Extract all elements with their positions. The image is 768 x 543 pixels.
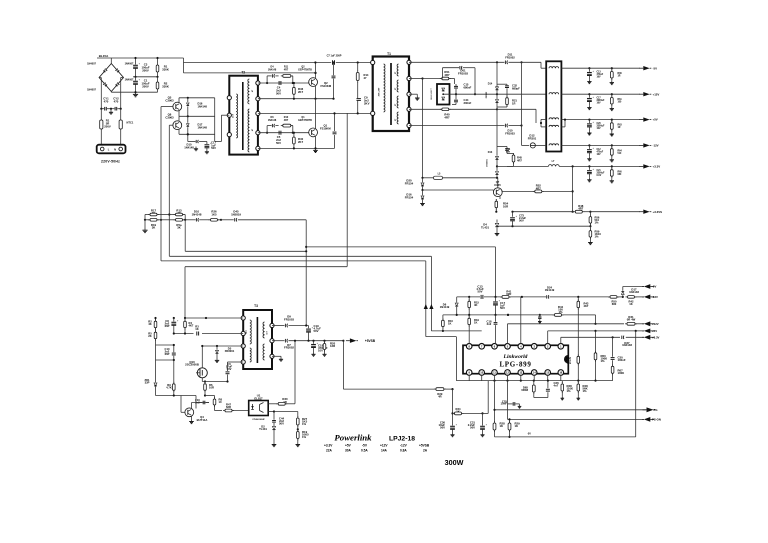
ground R19 bbox=[142, 228, 147, 233]
T3 winding labels bbox=[246, 330, 268, 335]
diode D10b 1N4148 bbox=[185, 210, 209, 222]
svg-text:-5V: -5V bbox=[527, 433, 531, 436]
resistor R67 100K bbox=[611, 364, 624, 380]
capacitor C21 3300uF bbox=[587, 166, 605, 181]
capacitor C25 bars bbox=[508, 402, 522, 408]
resistor R28 1K bbox=[493, 409, 505, 437]
resistor R19b 1K bbox=[468, 315, 480, 344]
svg-text:+3.3V: +3.3V bbox=[324, 443, 333, 447]
resistor R26 1K5 bbox=[209, 210, 223, 222]
capacitor C73 2.2uF 50V bbox=[510, 212, 526, 227]
wire T2 pin4 to Q1 base bbox=[258, 132, 309, 134]
wire T2pin3 to T1pin2 bbox=[258, 112, 373, 114]
svg-text:LPG-899: LPG-899 bbox=[499, 361, 531, 369]
labels Q2 drive network bbox=[268, 65, 312, 71]
transistor Q6 C3963 bbox=[165, 113, 181, 135]
ground CY mid bbox=[109, 108, 113, 115]
svg-text:30A: 30A bbox=[345, 448, 352, 452]
output arrow -12V in bbox=[642, 295, 658, 300]
ground TL431 bbox=[495, 232, 500, 236]
transformer T1 bbox=[373, 52, 409, 131]
wire bottom loop bbox=[495, 331, 636, 437]
svg-text:N: N bbox=[114, 147, 116, 151]
capacitor C31 2.2uF 50V bbox=[468, 413, 488, 436]
capacitor C50 snubber bbox=[332, 61, 336, 98]
label 220V-50Hz bbox=[101, 159, 120, 163]
capacitor C16 99n snubber bbox=[497, 147, 511, 154]
resistor R46 2K7 bbox=[293, 82, 304, 99]
bridge rectifier BR1 bbox=[99, 58, 123, 92]
wire +5V bracket bbox=[540, 119, 565, 127]
ground T2 bottom bbox=[313, 148, 318, 152]
svg-text:20T+20T: 20T+20T bbox=[379, 87, 381, 96]
svg-text:1N4148: 1N4148 bbox=[268, 119, 277, 122]
svg-text:R31K: R31K bbox=[195, 325, 199, 332]
svg-text:SBL1040CT: SBL1040CT bbox=[431, 87, 433, 100]
svg-text:C2510nF: C2510nF bbox=[500, 399, 507, 405]
resistor R44 100 1% bbox=[553, 305, 564, 316]
wire T2 left pin2 bbox=[221, 115, 229, 141]
svg-text:Linkworld: Linkworld bbox=[503, 354, 528, 360]
svg-text:R261K5: R261K5 bbox=[211, 210, 217, 217]
resistor R17 4K bbox=[145, 208, 169, 216]
resistor R29a 4R bbox=[434, 388, 446, 399]
svg-text:R4162R: R4162R bbox=[506, 289, 511, 296]
label -5V small bbox=[527, 433, 531, 436]
svg-text:ZD133P: ZD133P bbox=[144, 378, 150, 385]
ground T1 pin3 bbox=[415, 96, 420, 100]
svg-text:BL15A: BL15A bbox=[99, 54, 109, 58]
wire left gnd stub bbox=[144, 215, 146, 229]
svg-text:-5V: -5V bbox=[362, 443, 368, 447]
wire Q6 base feedback bbox=[168, 125, 170, 256]
capacitor C44 330nF bbox=[452, 94, 472, 105]
resistor R10b 1K bbox=[442, 318, 454, 331]
svg-text:-5V: -5V bbox=[653, 66, 658, 70]
capacitor C8 2n2 66P bbox=[165, 318, 179, 334]
wire T1 pin2 bbox=[409, 77, 455, 84]
mosfet Q10 2SC2000B bbox=[185, 345, 207, 382]
svg-text:CY1470: CY1470 bbox=[103, 97, 109, 104]
dual schottky SBL1040CT bbox=[431, 84, 450, 105]
resistor R21 1R bbox=[497, 96, 517, 107]
wire +12V rail out bbox=[561, 93, 640, 95]
diode D20 FR154 bbox=[405, 177, 424, 190]
svg-text:C7 1uF 250P: C7 1uF 250P bbox=[327, 54, 342, 57]
wire under IC bbox=[493, 380, 535, 382]
svg-text:D13: D13 bbox=[488, 151, 493, 154]
ground Q4 bbox=[189, 420, 194, 424]
ground R19a bbox=[296, 443, 301, 447]
svg-text:GEP4T08TB: GEP4T08TB bbox=[298, 68, 312, 71]
svg-text:1N4007: 1N4007 bbox=[125, 63, 134, 66]
label ratings row2 bbox=[326, 448, 428, 452]
transistor Q1 FS10KM bbox=[309, 99, 332, 149]
svg-text:220V-50Hz: 220V-50Hz bbox=[101, 159, 120, 163]
resistor R1a 5R 250V bbox=[100, 109, 111, 146]
svg-text:FR302: FR302 bbox=[486, 91, 488, 98]
capacitor C30 100nF bbox=[611, 337, 626, 366]
resistor R48 4R7 bbox=[573, 204, 584, 213]
diode D13 1N5401 pair bbox=[486, 109, 499, 179]
resistor R4 4K7 bbox=[184, 318, 194, 334]
resistor R20 12R bbox=[322, 341, 335, 357]
diode D7 FR3002 bbox=[272, 339, 343, 350]
resistor R38 110K 1% bbox=[561, 381, 574, 400]
svg-text:C264n7: C264n7 bbox=[554, 381, 560, 387]
wire mid rail T2 pin2 bbox=[258, 98, 335, 100]
resistor R61 100 bbox=[610, 94, 623, 110]
svg-text:+3.3V: +3.3V bbox=[653, 165, 661, 169]
resistor R19a 10K5 1% bbox=[297, 429, 310, 442]
resistor R54 10R bbox=[495, 199, 509, 213]
wire T1 pin3 ground bbox=[409, 94, 417, 96]
wire D junction to Q7 base bbox=[423, 189, 492, 191]
capacitor C19 4.7uF 50V bbox=[306, 324, 321, 341]
resistor R60a 100K 1% bbox=[594, 331, 607, 382]
capacitor C18 4700uF 10V bbox=[311, 341, 328, 357]
capacitor C5 2n2 50V bbox=[276, 131, 281, 145]
capacitor C6 27uF 50V bbox=[226, 362, 244, 382]
svg-text:R4762R: R4762R bbox=[226, 403, 231, 410]
resistor R29b 1K bbox=[508, 418, 520, 438]
label 300W bbox=[445, 458, 464, 467]
wire T3 primary feed bbox=[346, 113, 348, 266]
T2 pins left bbox=[227, 96, 231, 137]
capacitor C15 680nF bbox=[454, 83, 472, 96]
resistor R56 510 1% bbox=[589, 212, 600, 228]
svg-text:R50680: R50680 bbox=[612, 300, 617, 307]
wire bus L2 bbox=[169, 256, 481, 332]
resistor R14 47 bbox=[356, 61, 369, 95]
inductor L5 bbox=[423, 173, 498, 180]
wire bus L5 opto bbox=[306, 247, 495, 297]
resistor R30 1R bbox=[276, 341, 295, 405]
svg-text:-12V: -12V bbox=[652, 295, 658, 299]
resistor R01 4R7 bbox=[440, 70, 451, 80]
svg-text:4R7: 4R7 bbox=[284, 119, 289, 122]
wire T2 primary bus bbox=[215, 98, 222, 142]
wire T1 pin5 -12V bbox=[409, 62, 529, 145]
wire HV to T1 bbox=[184, 61, 373, 73]
diode D10 FR1003 bbox=[505, 124, 515, 136]
transistor Q5 C3963 bbox=[161, 96, 182, 117]
label model LPJ2-18 bbox=[389, 436, 415, 443]
resistor R43 4K7 bbox=[577, 297, 589, 356]
output arrow +3.3VS bbox=[639, 210, 662, 214]
wire T3 pin2 row bbox=[173, 332, 244, 334]
IC U2 LPG-899 bbox=[463, 344, 568, 376]
transformer T3 bbox=[243, 304, 272, 369]
resistor R63 1R bbox=[610, 120, 623, 136]
svg-text:R434K7: R434K7 bbox=[584, 302, 589, 309]
ground D16a bbox=[420, 202, 425, 206]
capacitor C10 2n2 66P bbox=[165, 345, 176, 360]
wire row y296.9 bbox=[457, 296, 608, 298]
svg-text:+5VSB: +5VSB bbox=[419, 443, 430, 447]
capacitor C12 470uF bbox=[587, 145, 604, 160]
wire T3 pin3 row bbox=[203, 345, 244, 347]
diode D12 FR301 bbox=[528, 134, 546, 148]
wire pin2 tap down bbox=[422, 79, 424, 178]
capacitor R3 1K coupling bbox=[195, 325, 199, 336]
wire Q6 emitter rail bbox=[179, 133, 215, 135]
wire PG row bbox=[495, 381, 647, 410]
wire +3.3VS rail bbox=[511, 211, 640, 213]
wire +3.3V sense drop bbox=[572, 166, 574, 212]
resistor R5b 2K stack bbox=[148, 317, 157, 345]
wire bus L1 bbox=[161, 261, 613, 381]
svg-text:C3610uF50V: C3610uF50V bbox=[438, 421, 445, 430]
wire AC top rail bbox=[97, 58, 184, 73]
diode D01 FR1003 snubber bbox=[443, 66, 477, 95]
resistor R42 1K bbox=[626, 296, 645, 306]
T2 winding labels bbox=[233, 89, 254, 131]
resistor R48a 56K 1% bbox=[577, 381, 589, 400]
wire T3 pin1 row bbox=[173, 317, 244, 319]
output arrow +5V in bbox=[642, 329, 657, 334]
svg-text:CPH0616JHF: CPH0616JHF bbox=[252, 419, 265, 421]
ground R59 bbox=[588, 241, 593, 245]
capacitor CY1 470 bbox=[100, 97, 111, 111]
svg-text:R454R7: R454R7 bbox=[517, 156, 522, 163]
wire R34 row bbox=[451, 381, 488, 415]
resistor R36 1R bbox=[610, 68, 623, 84]
wire bridge AC left leg bbox=[99, 78, 101, 109]
svg-text:-5V: -5V bbox=[652, 285, 656, 289]
output arrow PG bbox=[643, 407, 658, 412]
inductor L7 bbox=[497, 160, 640, 168]
svg-text:R484R7: R484R7 bbox=[578, 204, 584, 211]
optocoupler U1 EL817 bbox=[249, 394, 269, 421]
diode D17 1N4148 bbox=[187, 116, 208, 134]
svg-text:R404R7: R404R7 bbox=[444, 113, 450, 120]
svg-text:300W: 300W bbox=[445, 458, 464, 467]
wire +12V row bbox=[507, 314, 624, 344]
svg-text:+5VSB: +5VSB bbox=[365, 339, 376, 343]
svg-text:2A: 2A bbox=[423, 448, 428, 452]
T3 pins right bbox=[270, 323, 274, 358]
transistor Q7 C945 bbox=[491, 178, 502, 199]
wire T1 pin1 -5V bbox=[409, 61, 546, 68]
transistor Q2 FS10KM bbox=[309, 72, 332, 99]
svg-text:R52K: R52K bbox=[148, 332, 152, 339]
wire bottom rail bbox=[111, 91, 157, 93]
ground stub y314.9 bbox=[538, 315, 542, 323]
resistor R47 62R bbox=[223, 403, 249, 412]
wire mid rail bbox=[133, 76, 159, 78]
resistor R40a 4R7 bbox=[440, 108, 451, 119]
svg-text:T3: T3 bbox=[254, 304, 258, 308]
svg-text:0.5A: 0.5A bbox=[361, 448, 368, 452]
resistor R19 3K bbox=[145, 219, 161, 230]
wire left chain R2 C10 bbox=[156, 344, 175, 360]
diode D27 1N4148 bbox=[622, 336, 633, 348]
wire bus L3 bbox=[185, 220, 306, 252]
output arrow +5V bbox=[639, 117, 657, 121]
svg-text:R402K7: R402K7 bbox=[298, 137, 304, 144]
arrow bus L1 bbox=[424, 304, 428, 309]
resistor R27 1K5 1% bbox=[297, 416, 308, 430]
resistor R62 4K62 1% bbox=[564, 354, 579, 381]
diode D24 1N4149 bbox=[545, 286, 555, 299]
resistor R6 10R bbox=[202, 380, 228, 395]
wire T2 pin1 to Q2 base bbox=[258, 82, 309, 84]
capacitor C3 100uF 200V bbox=[133, 57, 150, 77]
diode D9 FR1003 bbox=[272, 315, 309, 328]
capacitor C25 10nF bbox=[500, 381, 507, 420]
svg-text:1N5401: 1N5401 bbox=[486, 158, 489, 166]
wire SBL output +12V bbox=[442, 93, 546, 95]
wire TL431 row bbox=[497, 225, 590, 227]
output arrow PS-ON bbox=[642, 417, 661, 422]
svg-text:4R7: 4R7 bbox=[284, 68, 289, 71]
resistor R60 680 bbox=[610, 166, 623, 182]
output arrow +5VSB bbox=[342, 338, 375, 343]
label 1N4007 x4 bbox=[87, 63, 134, 92]
labels Q1 drive network bbox=[268, 116, 312, 122]
wire +5V row bbox=[548, 330, 644, 344]
svg-text:D14: D14 bbox=[488, 82, 493, 85]
resistor R50 680 bbox=[608, 296, 624, 306]
wire -12V rail out bbox=[561, 144, 640, 146]
ground D2 bbox=[272, 443, 277, 447]
resistor R34 1K bbox=[453, 407, 464, 415]
shunt reg D4a TL431 bbox=[481, 220, 499, 232]
pin stubs bottom bbox=[469, 375, 561, 381]
diode D45 1N5819 bbox=[221, 210, 306, 222]
capacitor C26 4n7 bbox=[534, 380, 559, 398]
resistor R41 62R bbox=[500, 289, 512, 298]
svg-text:0.8A: 0.8A bbox=[400, 448, 407, 452]
wire T1 pin4 bbox=[409, 108, 536, 123]
resistor R64 510 bbox=[610, 145, 623, 161]
svg-text:+3.3V: +3.3V bbox=[652, 336, 660, 340]
svg-text:+12V: +12V bbox=[380, 443, 388, 447]
logo Powerlink bbox=[334, 433, 372, 443]
ground D10a bbox=[194, 147, 198, 151]
wire +3.3V row bbox=[561, 336, 644, 344]
wire bus L6 T3 feed bbox=[185, 267, 347, 318]
capacitor C32 680pF bbox=[497, 84, 520, 98]
svg-text:R524R7: R524R7 bbox=[536, 184, 542, 191]
svg-text:NTC1: NTC1 bbox=[127, 121, 134, 125]
capacitor C20 3300uF bbox=[587, 120, 605, 135]
svg-text:14A: 14A bbox=[381, 448, 388, 452]
fuse F1 BL15A bbox=[99, 54, 109, 58]
resistor R59 1K10 1% bbox=[589, 226, 601, 240]
diode D16 1N4148 bbox=[187, 98, 208, 117]
capacitor F10 2n2 bbox=[195, 396, 209, 409]
wire Q5 base feedback bbox=[160, 107, 162, 261]
AC connector 220V input bbox=[97, 145, 126, 154]
svg-text:+5V: +5V bbox=[653, 118, 658, 122]
svg-text:21T: 21T bbox=[233, 113, 235, 117]
svg-text:PS-ON: PS-ON bbox=[652, 418, 661, 422]
wire opto top right bbox=[268, 403, 277, 405]
inductor L2 output choke bbox=[546, 61, 561, 151]
svg-text:+12V: +12V bbox=[652, 322, 659, 326]
output arrow -12V bbox=[639, 143, 658, 147]
diode D6b 1N4149 bbox=[440, 297, 458, 315]
capacitor C44a 2n2 50V bbox=[272, 417, 284, 426]
capacitor C9 2n2 2KV bbox=[357, 95, 370, 113]
svg-text:LPJ2-18: LPJ2-18 bbox=[389, 436, 415, 443]
capacitor C17 3300uF bbox=[587, 94, 605, 109]
svg-text:R2012R: R2012R bbox=[330, 342, 336, 348]
capacitor C7 1uF 250V bbox=[327, 54, 342, 65]
svg-text:C102n266P: C102n266P bbox=[165, 347, 170, 356]
svg-text:1N4007: 1N4007 bbox=[125, 78, 134, 81]
diode D6a + resistor R10a loop bbox=[266, 124, 293, 134]
diode D10a 1N4148 bbox=[184, 133, 207, 149]
svg-text:1N4007: 1N4007 bbox=[87, 88, 96, 91]
wire rail y=73 from bridge bbox=[184, 72, 316, 74]
svg-text:+5V: +5V bbox=[652, 329, 657, 333]
resistor R15 4K bbox=[468, 297, 480, 315]
resistor R9 4.7K bbox=[156, 359, 176, 396]
wire T3 pin6 gnd bbox=[272, 356, 283, 361]
capacitor C18a 2n2 bbox=[487, 315, 498, 344]
wire y388.9 row bbox=[452, 389, 454, 424]
wire bus L4 PWM feed bbox=[305, 220, 307, 326]
ground D5 bbox=[215, 359, 219, 363]
svg-text:C442n250V: C442n250V bbox=[279, 417, 285, 426]
resistor R5a 3K bbox=[161, 219, 186, 230]
capacitor C17a 1uF 50V bbox=[205, 141, 217, 154]
capacitor C13a 4.7uF 50V bbox=[476, 285, 484, 299]
capacitor CY2 470 bbox=[111, 97, 122, 111]
diode D17a 1N4148 bbox=[621, 287, 644, 297]
output arrow +12V in bbox=[642, 321, 659, 326]
diode D11 FR1002 bbox=[505, 53, 515, 65]
diode D16a FR154 bbox=[405, 189, 424, 202]
wire -5V rail out bbox=[561, 67, 640, 69]
svg-text:GEP4T08TB: GEP4T08TB bbox=[298, 119, 312, 122]
wire mid row bbox=[156, 394, 211, 396]
svg-text:+3.3VS: +3.3VS bbox=[653, 210, 663, 214]
svg-text:1N4148: 1N4148 bbox=[268, 68, 277, 71]
capacitor C4 2n2 50V bbox=[276, 81, 281, 95]
svg-text:22A: 22A bbox=[326, 448, 333, 452]
resistor R8 10 bbox=[211, 396, 223, 411]
svg-text:C182n2: C182n2 bbox=[487, 320, 492, 327]
T3 pins left bbox=[241, 316, 245, 364]
diode D4 + resistor R11 loop bbox=[266, 74, 293, 84]
thermistor NTC1 bbox=[119, 109, 134, 146]
resistor R31 0R 4W bbox=[625, 315, 644, 325]
svg-text:-12V: -12V bbox=[653, 144, 659, 148]
wire bridge AC right leg bbox=[121, 78, 124, 109]
svg-text:1N4007: 1N4007 bbox=[87, 63, 96, 66]
zener ZD1 33P bbox=[144, 360, 157, 396]
capacitor C1 100uF 200V bbox=[133, 77, 150, 92]
svg-text:+5V: +5V bbox=[345, 443, 352, 447]
T2 pins right bbox=[256, 81, 260, 151]
svg-text:R5410R: R5410R bbox=[503, 202, 509, 209]
transistor Q4 BUT11A bbox=[181, 396, 209, 422]
output arrow -5V bbox=[639, 66, 657, 70]
output arrow +12V bbox=[639, 92, 659, 96]
wire standby to R29a bbox=[343, 341, 453, 391]
T1 winding labels bbox=[379, 71, 398, 121]
svg-text:R462K7: R462K7 bbox=[298, 87, 304, 94]
wire row y314.9 bbox=[443, 314, 580, 320]
wire PS-ON row bbox=[508, 418, 645, 420]
capacitor C13 470uF bbox=[587, 68, 604, 83]
resistor R52 4R7 bbox=[502, 184, 572, 193]
diode D14 FR302 pair bbox=[486, 62, 499, 109]
